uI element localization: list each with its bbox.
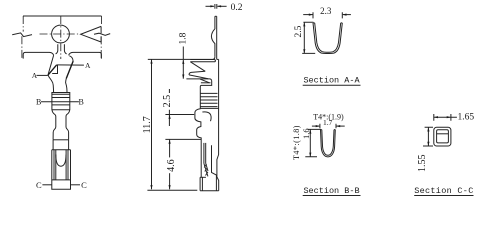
section line C-C left leg: [42, 184, 52, 186]
wing base right edge and bottom: [200, 81, 211, 109]
contact spring lower diagonal: [204, 163, 208, 176]
wire crimp wing top plate: [190, 60, 215, 62]
dim 1.55 extension lines: [423, 127, 433, 146]
spring hatch 2: [205, 168, 207, 172]
right fold centerline (dash-dot) upper: [101, 16, 103, 26]
dim 4.6 lower line with down arrow: [169, 173, 171, 189]
svg-text:4.6: 4.6: [166, 159, 177, 172]
C-C seam line: [437, 133, 449, 135]
contact spring inner diagonal: [206, 163, 208, 171]
svg-text:1.55: 1.55: [417, 154, 428, 172]
triangle right side segments: [100, 26, 102, 42]
A-A wall caps: [313, 22, 342, 24]
wing fold-back edge: [189, 71, 205, 75]
dim 2.5 line with up arrow: [168, 89, 170, 126]
svg-text:B: B: [79, 97, 84, 106]
box seam line 2: [55, 150, 57, 180]
wing upper diagonal: [190, 62, 205, 72]
A-A outer U: [313, 23, 342, 54]
dim 2.3 extension ticks: [313, 12, 342, 18]
pilot hole: [52, 25, 70, 43]
C-C inner box: [437, 130, 449, 143]
insulation crimp block: [52, 93, 70, 110]
body right edge with jog: [217, 59, 219, 190]
receptacle box outline: [52, 150, 71, 190]
carrier tab left wall with anti-overlap dimple: [211, 16, 215, 57]
box left wall inner: [201, 177, 203, 190]
receptacle box top line: [53, 139, 69, 141]
wing fold step edge: [52, 65, 57, 74]
dim 0.2 right line with arrow: [218, 5, 227, 7]
box seam line 3: [65, 150, 67, 180]
crimp serration line 3: [52, 104, 70, 106]
box seam line 4: [67, 150, 69, 180]
extension line A (2.5 top): [165, 114, 194, 116]
C-C outer box: [434, 127, 451, 146]
dim 1.6 extension lines: [305, 129, 321, 156]
wing lower rear diagonal: [200, 79, 209, 83]
svg-text:0.2: 0.2: [231, 3, 243, 13]
body left edge with retention bulges: [195, 109, 201, 178]
insulation crimp bottom line: [200, 107, 218, 109]
contact spring line 2: [205, 143, 207, 164]
dim 2.3 right line with arrow: [343, 14, 351, 16]
dim 1.8 lower line with arrows: [182, 60, 184, 79]
dim 11.7 line with arrows: [151, 59, 153, 189]
svg-text:C: C: [81, 180, 87, 190]
dim 0.2 extension tick left: [214, 4, 216, 9]
bottom extension line: [147, 189, 197, 191]
svg-text:C: C: [36, 180, 42, 190]
receptacle box upper side left: [52, 140, 54, 150]
insulation crimp serration 5: [200, 106, 217, 108]
B-B wall caps: [321, 129, 336, 131]
insulation crimp serration 1: [200, 92, 217, 94]
dim 1.8 upper line: [182, 47, 184, 60]
dim 0.2 left line with arrow: [206, 5, 214, 7]
section line A-A thick jog left: [48, 65, 57, 75]
crimp serration line 1: [52, 93, 70, 95]
carrier tab right edge: [64, 44, 66, 54]
box left wall outer: [199, 177, 201, 190]
section line C-C right leg: [70, 184, 80, 186]
dim 2.3 left line with arrow: [303, 14, 312, 16]
dim 1.6 line with arrows: [309, 129, 311, 156]
feed direction triangle: [81, 26, 101, 42]
dim 2.5 line with arrows: [303, 22, 305, 53]
carrier tab right wall: [216, 16, 218, 59]
break mark (right strip end): [94, 33, 110, 35]
lower neck left edge: [52, 110, 56, 140]
carrier tab left edge: [56, 44, 58, 54]
dim 1.65 line with outward arrows: [434, 116, 457, 118]
left fold centerline (dash-dot) lower: [21, 36, 23, 60]
carrier strip top edge: [23, 15, 102, 17]
svg-text:T4*:(1.9): T4*:(1.9): [313, 112, 344, 121]
dim 1.7 left line with arrow: [312, 125, 320, 127]
svg-text:2.3: 2.3: [320, 6, 332, 16]
dim 4.6 upper line with up arrow: [169, 140, 171, 158]
box bottom: [200, 190, 219, 192]
insulation crimp serration 3: [200, 99, 217, 101]
svg-text:2.5: 2.5: [162, 95, 173, 108]
receptacle box bottom rim line: [52, 179, 71, 181]
svg-text:A: A: [85, 61, 91, 70]
right body edge: [66, 56, 74, 93]
dim 1.55 line with arrows: [427, 127, 429, 146]
insulation crimp serration 4: [200, 102, 217, 104]
vertical centerline through pilot hole: [60, 16, 62, 59]
svg-text:1.6: 1.6: [301, 128, 311, 139]
svg-text:Section C-C: Section C-C: [414, 186, 473, 196]
B-B outer U: [321, 130, 336, 157]
horizontal centerline of pilot hole: [40, 33, 81, 35]
svg-text:B: B: [36, 98, 41, 107]
B-B inner U: [322, 130, 334, 156]
section line A-A right leg: [57, 64, 84, 66]
wing rear edge line: [186, 79, 211, 81]
crimp serration line 2: [52, 97, 70, 99]
locking lance curve: [202, 112, 211, 121]
dim 1.7 right line with arrow: [337, 125, 345, 127]
box top-left edge: [200, 176, 206, 178]
carrier tab top cap: [215, 15, 217, 17]
extension line B (2.5 bottom / 4.6 top): [165, 138, 201, 140]
section line B-B: [41, 101, 79, 103]
wing lower diagonal: [189, 75, 208, 79]
receptacle box upper side right: [68, 140, 70, 150]
svg-text:A: A: [32, 71, 38, 80]
section line A-A thick jog right: [66, 61, 73, 78]
svg-text:T4*:(1.8): T4*:(1.8): [292, 125, 301, 160]
right fold centerline (dash-dot) lower: [100, 36, 102, 58]
left fold centerline (dash-dot) upper: [22, 16, 24, 32]
A-A inner U: [315, 23, 341, 52]
insulation crimp serration 2: [200, 96, 217, 98]
dim 1.7 extension ticks: [320, 124, 336, 129]
dim 1.65 extension ticks: [434, 114, 451, 121]
left body edge: [48, 55, 53, 92]
spring hatch 1: [204, 164, 206, 168]
box inner wall line: [212, 145, 217, 191]
svg-text:1.8: 1.8: [179, 32, 189, 44]
right wing shoulder: [69, 52, 102, 58]
break mark (left strip end): [12, 33, 32, 37]
svg-text:2.5: 2.5: [294, 25, 304, 37]
lower neck right edge: [66, 110, 70, 140]
svg-text:Section B-B: Section B-B: [303, 186, 359, 196]
svg-text:11.7: 11.7: [142, 116, 153, 133]
spring hatch 3: [206, 172, 208, 176]
shoulder line with fillet: [148, 57, 215, 60]
wing base plate line: [201, 82, 211, 84]
box seam line 1: [53, 150, 55, 180]
right edge short link: [217, 58, 219, 60]
svg-text:Section A-A: Section A-A: [303, 76, 360, 86]
dim 0.2 extension tick right: [216, 4, 218, 9]
contact spring line 1: [203, 143, 205, 164]
svg-text:1.65: 1.65: [458, 113, 475, 123]
section line A-A left leg: [37, 74, 48, 76]
contact detent U-curve: [56, 155, 66, 167]
dim 2.5 extension lines: [302, 22, 315, 53]
receptacle box face top line: [52, 149, 71, 151]
left wing shoulder: [23, 52, 53, 58]
